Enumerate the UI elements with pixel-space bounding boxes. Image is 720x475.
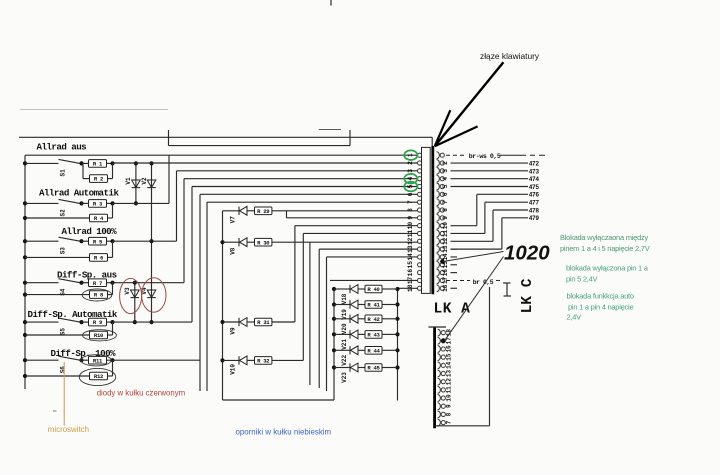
svg-text:Allrad aus: Allrad aus: [37, 142, 87, 153]
svg-text:R 30: R 30: [257, 239, 270, 246]
svg-text:R 8: R 8: [94, 292, 104, 299]
svg-text:R 42: R 42: [367, 316, 380, 323]
svg-text:blokada wyłączona pin 1 a: blokada wyłączona pin 1 a: [566, 264, 649, 273]
svg-text:V22: V22: [341, 355, 348, 366]
svg-text:S2: S2: [60, 209, 67, 217]
svg-text:złąze klawiatury: złąze klawiatury: [480, 51, 540, 61]
svg-text:pinem 1 a 4 i 5 napięcie 2,: pinem 1 a 4 i 5 napięcie 2,7V: [560, 244, 650, 253]
svg-text:18: 18: [407, 284, 414, 292]
svg-text:LK C: LK C: [520, 278, 536, 313]
svg-text:12: 12: [442, 237, 449, 245]
svg-text:15: 15: [445, 353, 452, 361]
svg-text:pin 5 2,4V: pin 5 2,4V: [566, 275, 598, 284]
svg-text:blokada funkkcja auto: blokada funkkcja auto: [567, 292, 634, 301]
svg-text:R12: R12: [94, 373, 104, 380]
svg-text:S1: S1: [60, 169, 67, 177]
svg-text:8: 8: [407, 208, 414, 212]
svg-text:473: 473: [529, 168, 540, 175]
svg-text:7: 7: [445, 420, 452, 424]
svg-text:12: 12: [445, 378, 452, 386]
svg-text:16: 16: [445, 345, 452, 353]
svg-text:V21: V21: [341, 339, 348, 350]
svg-text:R 41: R 41: [367, 302, 380, 309]
svg-text:10: 10: [442, 222, 449, 230]
svg-text:R 45: R 45: [367, 365, 380, 372]
svg-text:LK A: LK A: [434, 302, 471, 318]
svg-text:4: 4: [442, 176, 449, 180]
svg-text:16: 16: [407, 269, 414, 277]
svg-text:6: 6: [442, 192, 449, 196]
svg-text:Allrad 100%: Allrad 100%: [62, 226, 118, 237]
svg-text:S3: S3: [60, 247, 67, 255]
svg-text:6: 6: [407, 192, 414, 196]
svg-text:Diff-Sp. aus: Diff-Sp. aus: [57, 270, 117, 281]
svg-text:3: 3: [407, 169, 414, 173]
svg-text:477: 477: [529, 200, 540, 207]
svg-text:V9: V9: [230, 327, 237, 335]
svg-text:476: 476: [529, 192, 540, 199]
svg-text:V1: V1: [125, 177, 132, 185]
svg-text:R11: R11: [93, 357, 103, 364]
svg-text:R 3: R 3: [93, 201, 103, 208]
svg-text:2: 2: [407, 161, 414, 165]
svg-text:4: 4: [407, 177, 414, 181]
svg-text:15: 15: [407, 261, 414, 269]
svg-text:Allrad Automatik: Allrad Automatik: [39, 188, 119, 199]
svg-text:5: 5: [442, 184, 449, 188]
svg-text:2: 2: [442, 161, 449, 165]
svg-text:17: 17: [407, 276, 414, 284]
svg-text:R 6: R 6: [94, 255, 104, 262]
svg-text:R 43: R 43: [367, 332, 380, 339]
svg-text:12: 12: [407, 237, 414, 245]
svg-text:S6: S6: [60, 366, 67, 374]
svg-text:oporniki w kułku niebieskim: oporniki w kułku niebieskim: [236, 428, 332, 437]
svg-text:11: 11: [442, 229, 449, 237]
svg-text:7: 7: [442, 200, 449, 204]
svg-text:V7: V7: [230, 216, 237, 224]
svg-text:V8: V8: [230, 247, 237, 255]
svg-text:R 2: R 2: [94, 176, 104, 183]
svg-text:diody w kułku czerwonym: diody w kułku czerwonym: [97, 389, 185, 398]
svg-text:br-ws 0,5: br-ws 0,5: [469, 153, 501, 160]
svg-text:8: 8: [442, 208, 449, 212]
svg-text:11: 11: [445, 386, 452, 394]
svg-text:14: 14: [407, 253, 414, 261]
svg-text:R 7: R 7: [93, 280, 102, 287]
svg-text:V2: V2: [141, 177, 148, 185]
svg-text:14: 14: [442, 253, 449, 261]
svg-text:S5: S5: [60, 328, 67, 336]
svg-text:479: 479: [529, 215, 540, 222]
svg-text:3: 3: [442, 169, 449, 173]
svg-text:pin 1 a pin 4 napięcie: pin 1 a pin 4 napięcie: [568, 303, 633, 312]
svg-text:13: 13: [407, 245, 414, 253]
svg-text:V20: V20: [341, 323, 348, 334]
svg-text:R10: R10: [94, 332, 104, 339]
svg-text:V3: V3: [124, 287, 131, 295]
svg-text:V18: V18: [341, 293, 348, 304]
svg-text:R 44: R 44: [367, 347, 380, 354]
svg-text:R 9: R 9: [93, 319, 103, 326]
svg-text:11: 11: [407, 229, 414, 237]
svg-text:7: 7: [407, 200, 414, 204]
svg-text:472: 472: [529, 160, 540, 167]
svg-text:474: 474: [529, 176, 540, 183]
svg-text:R 40: R 40: [367, 286, 380, 293]
svg-text:8: 8: [445, 412, 452, 416]
svg-text:13: 13: [442, 245, 449, 253]
svg-text:18: 18: [442, 284, 449, 292]
svg-text:475: 475: [529, 184, 540, 191]
svg-text:14: 14: [445, 361, 452, 369]
svg-text:9: 9: [445, 404, 452, 408]
svg-text:Blokada wyłączaona między: Blokada wyłączaona między: [560, 233, 648, 242]
svg-text:16: 16: [442, 269, 449, 277]
svg-text:9: 9: [442, 216, 449, 220]
svg-text:1020: 1020: [504, 242, 550, 265]
svg-text:2,4V: 2,4V: [567, 313, 582, 322]
svg-text:R 4: R 4: [94, 215, 104, 222]
svg-text:478: 478: [529, 207, 540, 214]
svg-text:V23: V23: [341, 372, 348, 383]
svg-text:R 1: R 1: [93, 161, 103, 168]
svg-text:5: 5: [407, 184, 414, 188]
svg-text:R 31: R 31: [257, 319, 270, 326]
svg-text:10: 10: [445, 394, 452, 402]
svg-text:9: 9: [407, 216, 414, 220]
svg-text:1: 1: [407, 153, 414, 157]
svg-text:R 29: R 29: [257, 208, 270, 215]
svg-text:10: 10: [407, 222, 414, 230]
svg-text:R 32: R 32: [257, 358, 270, 365]
svg-text:microswitch: microswitch: [48, 425, 89, 434]
svg-text:V10: V10: [230, 364, 237, 375]
svg-text:13: 13: [445, 370, 452, 378]
svg-text:R 5: R 5: [93, 238, 103, 245]
